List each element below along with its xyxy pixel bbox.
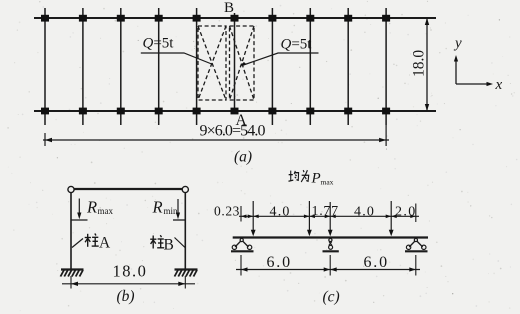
svg-text:x: x [495,77,503,93]
svg-text:max: max [321,178,334,187]
svg-text:Q=5t: Q=5t [143,36,175,52]
svg-text:Q=5t: Q=5t [281,37,313,53]
svg-text:6.0: 6.0 [364,254,389,271]
svg-text:0.23: 0.23 [214,204,240,219]
svg-text:B: B [224,0,234,16]
svg-text:max: max [98,206,114,216]
svg-text:R: R [86,198,97,217]
svg-text:(c): (c) [323,289,340,306]
svg-text:B: B [164,236,174,253]
svg-text:4.0: 4.0 [270,205,291,220]
svg-text:min: min [164,206,179,216]
svg-text:A: A [99,234,111,251]
svg-text:(b): (b) [117,288,135,305]
svg-text:18.0: 18.0 [113,262,148,281]
svg-text:6.0: 6.0 [267,254,292,271]
svg-text:9×6.0=54.0: 9×6.0=54.0 [200,123,266,140]
svg-text:4.0: 4.0 [354,205,375,220]
svg-text:2.0: 2.0 [395,205,417,220]
svg-text:1.77: 1.77 [312,204,339,219]
svg-text:(a): (a) [234,149,252,166]
svg-text:R: R [152,198,163,217]
svg-text:y: y [453,36,462,52]
svg-text:18.0: 18.0 [411,50,428,77]
svg-text:P: P [311,171,321,187]
